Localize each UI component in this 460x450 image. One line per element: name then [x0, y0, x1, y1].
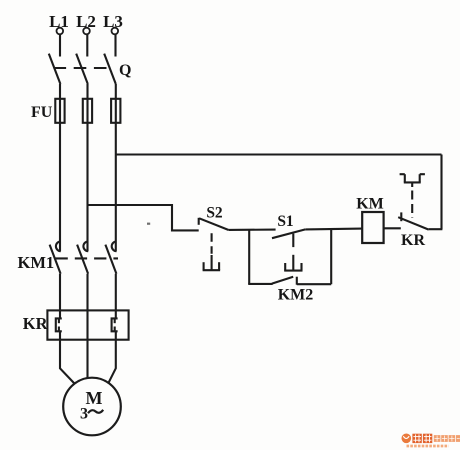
wire control tap from L3 to top control rail [116, 153, 442, 155]
contactor KM1 pole 2 blade [77, 245, 88, 274]
wire KM coil to KR contact [384, 227, 401, 229]
pushbutton S1 actuator symbol [284, 255, 302, 271]
thermal relay KR actuator symbol [400, 174, 425, 187]
pushbutton S1 actuator dashed link [292, 234, 294, 254]
wire L1 from KM1 to KR heater [59, 274, 61, 319]
contactor KM1 pole 1 fixed contact arc [56, 241, 61, 251]
fuse FU pole 3 body [111, 99, 120, 123]
node L2 terminal circle [83, 28, 90, 35]
wire L1 from KR heater to motor [60, 331, 74, 384]
wire L3 from KM1 to KR heater [115, 274, 117, 319]
wire L3 from switch Q to contactor KM1 pole 3 [115, 84, 117, 251]
coil KM body [362, 212, 383, 243]
motor tilde [88, 410, 103, 413]
node L1 terminal circle [57, 28, 64, 35]
switch Q pole 3 blade [104, 54, 116, 84]
switch Q mechanical linkage dashed line [54, 67, 109, 69]
wire right-side control drop [440, 155, 442, 230]
watermark tagline dashes [407, 445, 449, 448]
wire control tap from L2 [88, 205, 199, 230]
wire L3 from KR heater to motor [108, 331, 116, 383]
contactor KM1 pole 3 blade [105, 245, 116, 274]
wire KM2 parallel branch left drop [248, 230, 250, 284]
node L3 terminal circle [112, 28, 119, 35]
contactor KM1 pole 1 blade [50, 245, 61, 274]
svg-text:Q: Q [119, 62, 131, 79]
svg-text:3: 3 [80, 406, 88, 423]
pushbutton S2 fixed contact tick [198, 218, 200, 225]
scan speck near S2 [147, 223, 150, 225]
svg-text:KM1: KM1 [18, 253, 55, 272]
svg-text:KR: KR [23, 314, 49, 333]
svg-text:KM: KM [356, 196, 384, 213]
switch Q pole 2 blade [76, 54, 88, 84]
watermark brand glyph blocks [412, 434, 432, 443]
wire KM2 branch right riser [330, 229, 332, 284]
wire KR blade to right drop [429, 228, 443, 230]
wire L2 from KM1 through KR box [86, 274, 88, 379]
wire KM2 branch bottom right segment [297, 283, 331, 285]
thermal relay KR actuator dashed link [411, 191, 413, 219]
wire L3 from terminal to switch Q pole 3 [114, 35, 116, 57]
fuse FU pole 2 body [83, 99, 92, 123]
thermal relay KR box [47, 310, 128, 339]
wire L1 from terminal to switch Q pole 1 [59, 35, 61, 57]
contactor KM1 pole 2 fixed contact arc [83, 241, 88, 251]
wire L2 from switch Q to contactor KM1 pole 2 [86, 84, 88, 251]
contact KM2 fixed contact tick [296, 277, 298, 285]
wire control rail S1 to KM coil [305, 228, 362, 231]
wire KM2 branch bottom left segment [248, 283, 272, 285]
wire control rail S2 to S1 [228, 229, 275, 231]
pushbutton S2 actuator symbol [203, 255, 221, 270]
contact KM2 NO blade [272, 277, 293, 284]
svg-text:KR: KR [401, 232, 425, 249]
wire L1 from switch Q to contactor KM1 pole 1 [59, 84, 61, 251]
thermal relay KR heater element pole 1 [56, 318, 62, 331]
svg-text:FU: FU [31, 104, 53, 121]
contactor KM1 pole 3 fixed contact arc [112, 241, 117, 251]
svg-text:M: M [86, 388, 103, 408]
pushbutton S1 NO blade [272, 229, 305, 238]
svg-text:KM2: KM2 [278, 287, 314, 304]
svg-text:S1: S1 [277, 213, 293, 230]
pushbutton S2 actuator dashed link [211, 233, 213, 254]
thermal relay KR NC blade [398, 217, 429, 229]
fuse FU pole 1 body [55, 99, 64, 123]
pushbutton S2 NC blade [199, 218, 228, 230]
watermark small glyph blocks [434, 435, 460, 442]
watermark logo circle [402, 434, 412, 444]
thermal relay KR heater element pole 3 [112, 318, 118, 331]
motor M circle [63, 378, 121, 436]
switch Q pole 1 blade [49, 54, 61, 84]
contactor KM1 linkage dashed line [56, 257, 119, 259]
svg-text:S2: S2 [206, 205, 223, 222]
wire L2 from terminal to switch Q pole 2 [86, 35, 88, 57]
thermal relay KR contact fixed tick [400, 212, 402, 221]
